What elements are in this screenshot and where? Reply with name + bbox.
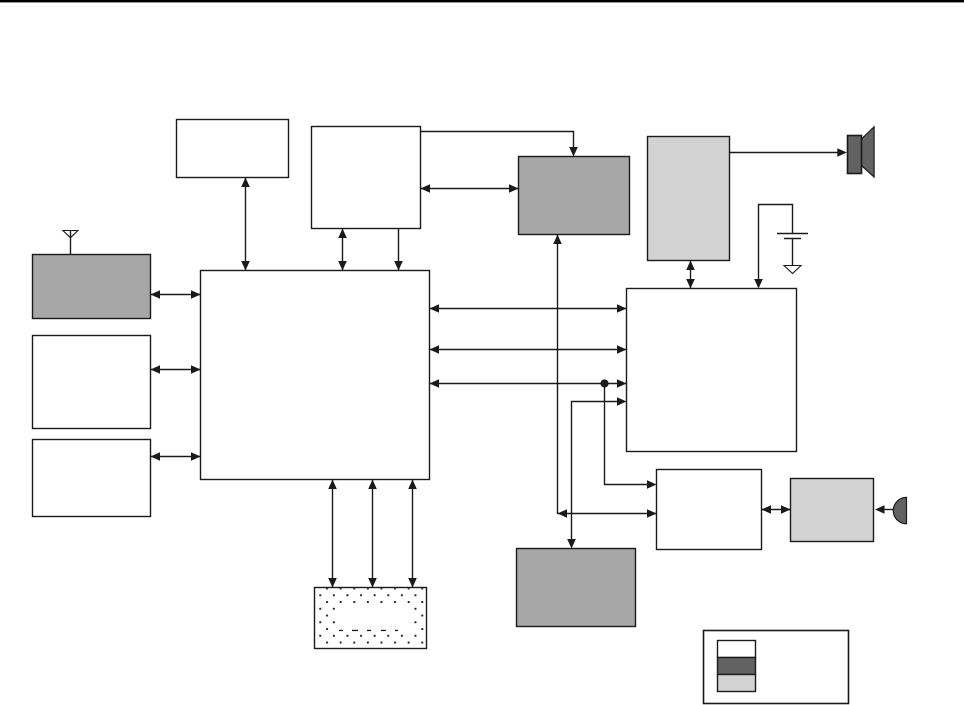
box A (top-left white block) (177, 120, 289, 178)
arrowhead into box K (875, 505, 885, 514)
ground symbol (784, 266, 801, 274)
arrowhead into C top (569, 147, 578, 157)
battery supply wire (759, 205, 793, 288)
wire J-K horizontal double arrow (762, 509, 791, 511)
box M (dotted pattern block) (315, 588, 427, 649)
junction dot on row3 (600, 379, 608, 387)
microphone icon (893, 497, 906, 523)
wire D to speaker (730, 152, 841, 154)
wire F-H horizontal double arrow (151, 369, 201, 371)
arrowhead into J lower (647, 509, 657, 518)
arrowhead at elbow pointing left (558, 509, 568, 518)
wire H-I row2 double arrow (430, 349, 627, 351)
arrowhead into J upper (647, 480, 657, 489)
wire H-I row1 double arrow (430, 308, 627, 310)
wire G-H horizontal double arrow (151, 456, 201, 458)
wire battery to ground (792, 239, 794, 266)
wire B to C elbow (421, 132, 574, 150)
arrowhead battery wire into box I (754, 279, 763, 289)
arrowhead into C bottom (553, 235, 562, 245)
antenna (63, 231, 78, 255)
arrowhead into speaker (837, 148, 847, 157)
battery cell long plate (777, 233, 808, 235)
wire B-H single down arrow (398, 229, 400, 271)
wire I-L elbow double arrow (572, 402, 620, 542)
wire mic to box K (881, 509, 894, 511)
wire B-C horizontal double arrow (421, 188, 519, 190)
wire H-M double arrow 1 (332, 480, 334, 588)
box H (large central white block) (201, 271, 430, 480)
wire H-I row3 double arrow (430, 383, 627, 385)
box E (medium gray RF block with antenna) (33, 255, 151, 319)
legend box (704, 631, 849, 704)
wire B-H vertical double arrow (342, 229, 344, 271)
box K (light gray block) (791, 479, 874, 542)
box D (light gray block) (648, 137, 730, 261)
top black bar (0, 0, 964, 2)
box F (white block) (33, 336, 151, 429)
box J (white block) (657, 470, 762, 550)
wire C-J elbow double arrow (558, 235, 657, 514)
box L (medium gray block) (517, 549, 636, 627)
wire D-I vertical double arrow (690, 261, 692, 289)
wire H-M double arrow 3 (412, 480, 414, 588)
box C (medium gray block) (519, 157, 630, 235)
box B (white block) (312, 127, 421, 229)
box G (white block) (33, 440, 151, 517)
wire E-H horizontal double arrow (151, 294, 201, 296)
wire H-M double arrow 2 (372, 480, 374, 588)
wire junction dot to J elbow (605, 384, 649, 485)
wire A-H vertical double arrow (245, 178, 247, 271)
box I (right white block) (627, 289, 797, 452)
speaker icon (848, 127, 875, 177)
battery cell short plate (784, 238, 801, 240)
